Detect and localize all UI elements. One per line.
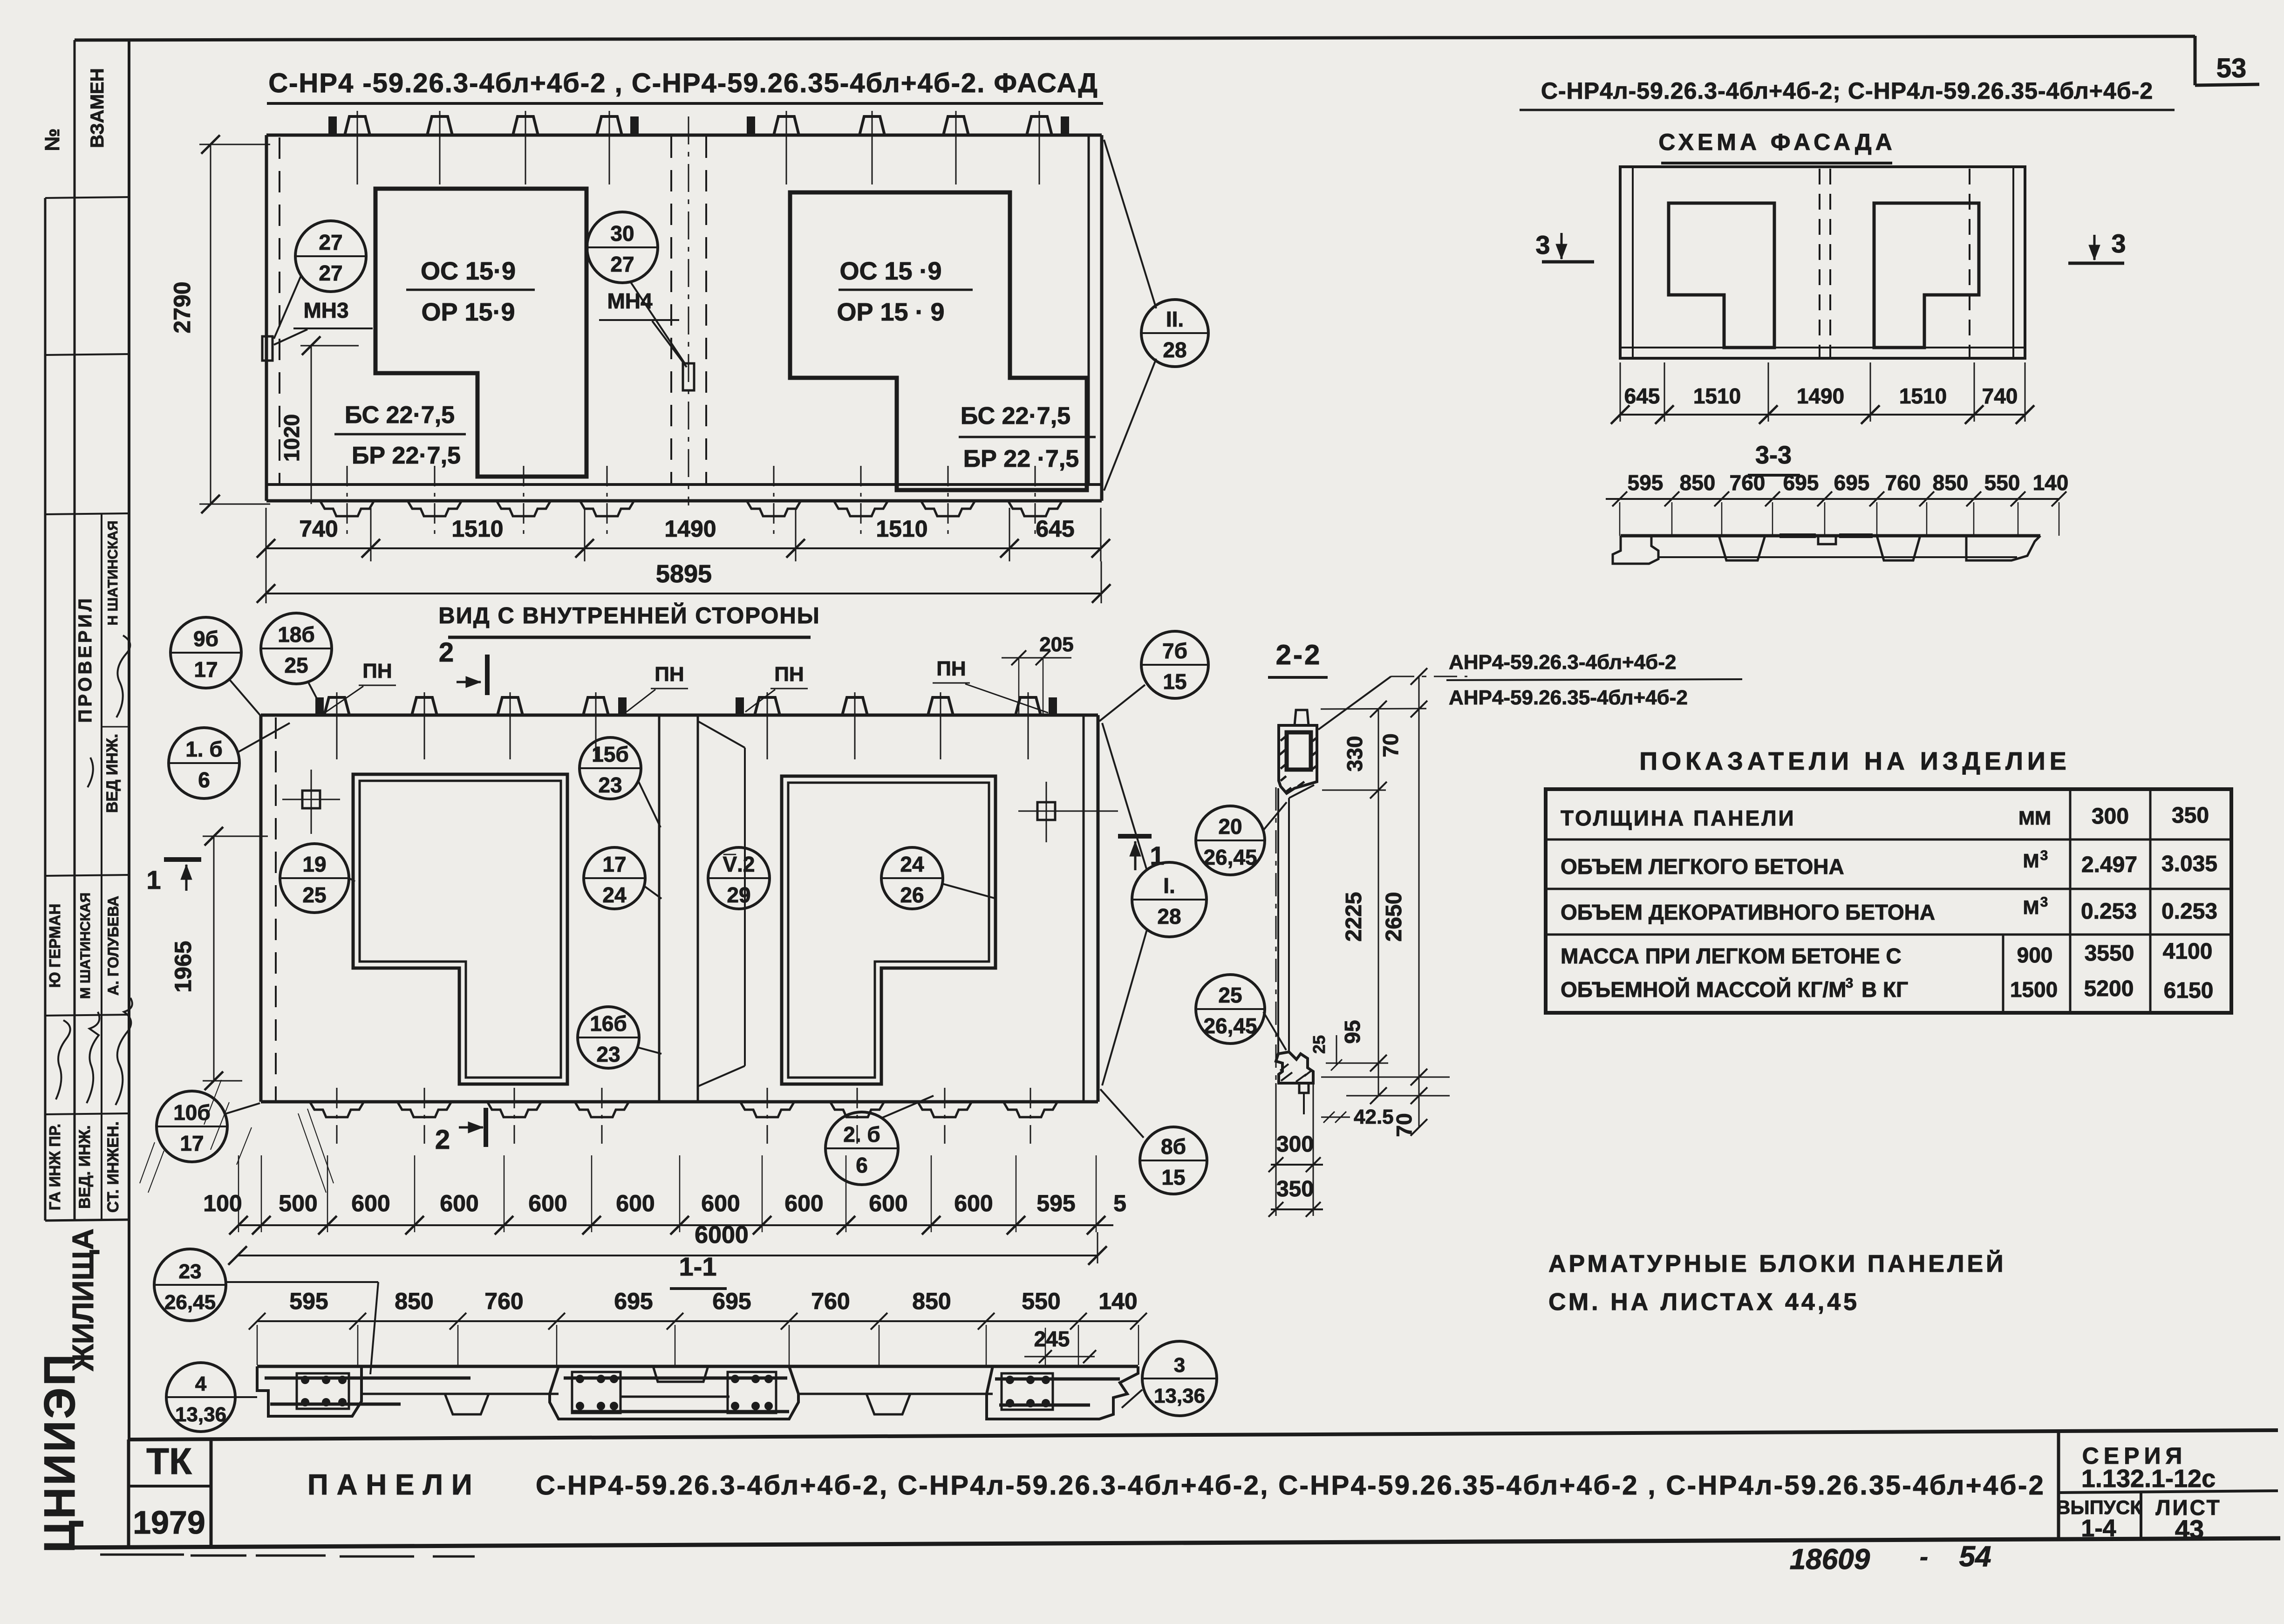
svg-text:№: № <box>41 128 64 151</box>
leader ANR4 to section <box>1318 676 1391 730</box>
svg-text:V̅.2: V̅.2 <box>723 852 755 876</box>
3-3 dim row <box>1606 498 2059 500</box>
svg-text:6: 6 <box>198 768 210 792</box>
svg-text:350: 350 <box>2172 803 2209 828</box>
svg-text:350: 350 <box>1276 1177 1314 1201</box>
svg-text:С-НР4-59.26.3-4бл+4б-2, С-НР4л: С-НР4-59.26.3-4бл+4б-2, С-НР4л-59.26.3-4… <box>536 1470 2045 1501</box>
svg-text:2-2: 2-2 <box>1276 639 1322 670</box>
svg-text:1-1: 1-1 <box>679 1252 717 1281</box>
inner dim 1965 <box>213 836 215 1081</box>
balloon 17/24 <box>584 847 645 909</box>
svg-text:СХЕМА ФАСАДА: СХЕМА ФАСАДА <box>1658 129 1895 155</box>
1-1 right block <box>987 1366 1138 1419</box>
section 2-2 narrow strip <box>1277 788 1279 1054</box>
svg-text:53: 53 <box>2216 53 2247 83</box>
svg-text:АНР4-59.26.35-4бл+4б-2: АНР4-59.26.35-4бл+4б-2 <box>1449 686 1688 709</box>
schema centre dash 2 <box>1829 169 1831 357</box>
svg-text:29: 29 <box>727 883 750 907</box>
balloon I/28 <box>1132 862 1207 937</box>
svg-text:ОС 15·9: ОС 15·9 <box>421 257 516 285</box>
balloon 16b/23 <box>578 1007 639 1068</box>
schema window left <box>1669 203 1774 348</box>
3-3 profile <box>1621 534 2040 538</box>
svg-text:1-4: 1-4 <box>2081 1515 2116 1542</box>
sheet top frame line <box>75 36 2195 40</box>
svg-text:СТ. ИНЖЕН.: СТ. ИНЖЕН. <box>104 1121 122 1213</box>
svg-text:МН3: МН3 <box>303 298 348 322</box>
svg-text:43: 43 <box>2175 1515 2204 1544</box>
facade bottom tooth at 1124 <box>497 501 551 516</box>
svg-text:2225: 2225 <box>1342 892 1366 942</box>
balloon 30/27 <box>587 212 658 283</box>
svg-text:3: 3 <box>1535 230 1550 259</box>
facade lifting loop at 1362 <box>631 117 638 135</box>
joint bracket <box>698 721 745 748</box>
svg-text:1510: 1510 <box>451 516 503 542</box>
svg-text:695: 695 <box>1783 471 1819 495</box>
facade total dim 5895 <box>266 593 1101 594</box>
svg-text:ПН: ПН <box>655 663 684 686</box>
balloon 24/26 <box>881 847 943 909</box>
svg-text:850: 850 <box>1933 471 1969 495</box>
svg-text:245: 245 <box>1034 1327 1070 1351</box>
svg-text:900: 900 <box>2017 943 2053 967</box>
svg-text:25: 25 <box>1309 1035 1329 1054</box>
svg-text:23: 23 <box>179 1260 202 1283</box>
inner top embed PN at 2019 <box>928 697 953 715</box>
facade top embed PN at 1308 <box>597 116 622 135</box>
svg-text:БР 22·7,5: БР 22·7,5 <box>352 442 461 469</box>
svg-text:МН4: МН4 <box>607 289 653 313</box>
svg-text:0.253: 0.253 <box>2161 899 2217 924</box>
svg-text:330: 330 <box>1343 736 1367 772</box>
svg-text:БР 22 ·7,5: БР 22 ·7,5 <box>963 445 1079 472</box>
left stamp column verticals <box>74 40 76 1221</box>
svg-text:0.253: 0.253 <box>2081 899 2137 924</box>
1-1 recess line a <box>361 1393 559 1395</box>
svg-text:3-3: 3-3 <box>1755 441 1792 469</box>
inner bottom tooth at 2212 <box>1003 1102 1057 1117</box>
inner bottom tooth at 1840 <box>830 1102 884 1117</box>
svg-text:595: 595 <box>1628 471 1664 495</box>
inner bottom tooth at 2028 <box>918 1102 972 1117</box>
facade window left (L-shape) <box>375 189 586 477</box>
svg-text:695: 695 <box>712 1288 751 1314</box>
svg-text:3.035: 3.035 <box>2161 852 2217 876</box>
section 2-2 bottom block <box>1276 1052 1313 1083</box>
svg-text:300: 300 <box>2092 804 2129 829</box>
inner left dashed axis <box>275 717 277 1100</box>
facade top embed PN at 1872 <box>859 116 885 135</box>
inner top embed PN at 1647 <box>755 697 780 715</box>
1-1 recess line b <box>798 1393 993 1395</box>
svg-text:2: 2 <box>435 1125 450 1155</box>
3-3 left end block <box>1613 536 1658 564</box>
1-1 dim row <box>257 1320 1139 1322</box>
svg-text:М: М <box>2023 896 2039 918</box>
1-1 mid cage 1 <box>572 1372 620 1413</box>
svg-text:7б: 7б <box>1162 639 1187 663</box>
facade bottom tooth at 745 <box>320 501 374 516</box>
svg-text:1500: 1500 <box>2010 977 2058 1002</box>
inner lifting loop at 686 <box>316 698 323 715</box>
svg-text:Ю ГЕРМАН: Ю ГЕРМАН <box>46 904 63 988</box>
section 2-2 dims <box>1321 709 1426 709</box>
1-1 right cage <box>1002 1373 1053 1410</box>
svg-text:ОБЪЕМНОЙ МАССОЙ КГ/М: ОБЪЕМНОЙ МАССОЙ КГ/М <box>1561 977 1847 1002</box>
svg-text:205: 205 <box>1039 633 1073 656</box>
facade top embed PN at 1688 <box>774 116 799 135</box>
svg-text:1965: 1965 <box>170 941 196 992</box>
facade bottom tooth at 2222 <box>1008 501 1062 516</box>
svg-text:ГА ИНЖ ПР.: ГА ИНЖ ПР. <box>46 1124 63 1210</box>
svg-text:550: 550 <box>1984 471 2020 495</box>
svg-text:95: 95 <box>1340 1020 1364 1044</box>
balloon 3/13,36 <box>1142 1341 1217 1416</box>
leader II/28 lower <box>1104 359 1156 491</box>
svg-text:140: 140 <box>2033 471 2069 495</box>
inner lifting loop at 1336 <box>619 698 626 715</box>
svg-text:26: 26 <box>900 883 924 907</box>
svg-text:С-НР4 -59.26.3-4бл+4б-2 , С-НР: С-НР4 -59.26.3-4бл+4б-2 , С-НР4-59.26.35… <box>268 68 1098 98</box>
schema window right <box>1874 203 1979 348</box>
svg-text:МАССА ПРИ ЛЕГКОМ БЕТОНЕ С: МАССА ПРИ ЛЕГКОМ БЕТОНЕ С <box>1561 944 1902 968</box>
svg-text:ЖИЛИЩА: ЖИЛИЩА <box>66 1228 100 1372</box>
svg-text:2.497: 2.497 <box>2081 853 2137 877</box>
facade top embed PN at 1128 <box>513 116 538 135</box>
svg-text:26,45: 26,45 <box>164 1291 216 1314</box>
1-1 recess tooth b <box>866 1394 910 1414</box>
svg-text:6: 6 <box>856 1153 868 1177</box>
table frame <box>1546 789 2231 1013</box>
svg-text:ВЗАМЕН: ВЗАМЕН <box>87 68 108 148</box>
inner window right double outline <box>782 776 995 1084</box>
svg-text:ПН: ПН <box>936 657 966 680</box>
facade bottom tooth at 933 <box>408 501 462 516</box>
schema outer panel <box>1620 167 2025 358</box>
svg-text:30: 30 <box>610 221 634 246</box>
inner top embed PN at 911 <box>412 697 437 715</box>
svg-text:760: 760 <box>1730 471 1766 495</box>
svg-text:70: 70 <box>1378 733 1403 757</box>
signature scribbles <box>56 1020 70 1099</box>
svg-text:5: 5 <box>1113 1190 1126 1216</box>
balloon 4/13,36 <box>166 1363 235 1432</box>
svg-text:18б: 18б <box>278 622 315 647</box>
svg-text:23: 23 <box>598 773 622 797</box>
svg-text:4100: 4100 <box>2163 939 2213 964</box>
stamp row dividers <box>45 197 129 198</box>
svg-text:8б: 8б <box>1161 1134 1186 1159</box>
balloon 1b/6 <box>169 728 239 798</box>
svg-text:17: 17 <box>180 1131 204 1155</box>
svg-text:20: 20 <box>1218 814 1242 839</box>
inner top embed PN at 1835 <box>842 697 867 715</box>
svg-text:19: 19 <box>302 852 326 876</box>
scan scratches <box>204 1080 221 1125</box>
marker MN3 <box>262 336 273 361</box>
inner bottom tooth at 1292 <box>575 1102 629 1117</box>
svg-text:600: 600 <box>616 1190 655 1216</box>
svg-text:С-НР4л-59.26.3-4бл+4б-2; С-НР4: С-НР4л-59.26.3-4бл+4б-2; С-НР4л-59.26.35… <box>1541 78 2153 104</box>
svg-text:595: 595 <box>1036 1190 1075 1216</box>
svg-text:6000: 6000 <box>695 1221 749 1249</box>
facade lifting loop at 1612 <box>748 117 754 135</box>
balloon 7b/15 <box>1141 631 1208 698</box>
facade top embed PN at 2052 <box>943 116 968 135</box>
svg-text:АРМАТУРНЫЕ БЛОКИ ПАНЕЛЕЙ: АРМАТУРНЫЕ БЛОКИ ПАНЕЛЕЙ <box>1548 1250 2006 1277</box>
inner bottom dim row <box>239 1224 1113 1226</box>
facade lifting loop at 714 <box>329 117 336 135</box>
svg-text:17: 17 <box>194 657 218 682</box>
svg-text:760: 760 <box>811 1288 850 1314</box>
facade bottom dim row <box>266 547 1101 549</box>
svg-text:760: 760 <box>484 1288 523 1314</box>
marker MN4 <box>683 363 694 390</box>
inner lifting loop at 2260 <box>1050 698 1056 715</box>
svg-text:2: 2 <box>439 637 454 668</box>
balloon 19/25 <box>280 844 349 913</box>
svg-text:18609: 18609 <box>1790 1543 1870 1576</box>
svg-text:1: 1 <box>146 865 161 894</box>
facade centre dashed axes <box>670 136 672 484</box>
1-1 left rebar cage <box>297 1373 349 1409</box>
svg-text:3550: 3550 <box>2085 941 2134 966</box>
inner top embed PN at 1279 <box>583 697 608 715</box>
facade bottom tooth at 1303 <box>580 501 634 516</box>
svg-text:1: 1 <box>1150 841 1164 870</box>
inner top embed PN at 2207 <box>1016 697 1041 715</box>
svg-text:695: 695 <box>1834 471 1870 495</box>
svg-text:100: 100 <box>203 1190 242 1216</box>
svg-text:Н ШАТИНСКАЯ: Н ШАТИНСКАЯ <box>105 520 121 625</box>
schema right dash axis <box>1969 169 1970 357</box>
svg-text:ММ: ММ <box>2018 807 2051 829</box>
svg-text:600: 600 <box>784 1190 823 1216</box>
svg-text:850: 850 <box>395 1288 433 1314</box>
svg-text:600: 600 <box>440 1190 478 1216</box>
svg-text:1979: 1979 <box>133 1504 205 1541</box>
balloon 27/27 <box>295 221 366 292</box>
inner lifting loop at 1588 <box>736 698 743 715</box>
inner bottom tooth at 1647 <box>740 1102 794 1117</box>
facade top embed PN at 767 <box>345 116 370 135</box>
svg-text:13,36: 13,36 <box>175 1403 226 1426</box>
svg-text:17: 17 <box>602 852 626 876</box>
svg-text:ОР 15·9: ОР 15·9 <box>421 298 515 326</box>
3-3 tooth 2 <box>1877 536 1920 560</box>
svg-text:15б: 15б <box>592 742 629 766</box>
inner bottom tooth at 911 <box>397 1102 451 1117</box>
svg-text:27: 27 <box>319 261 342 285</box>
balloon V2/29 <box>708 847 770 909</box>
svg-text:3: 3 <box>2040 848 2048 863</box>
svg-text:1490: 1490 <box>1797 384 1844 408</box>
svg-text:600: 600 <box>528 1190 567 1216</box>
svg-text:28: 28 <box>1157 904 1181 928</box>
leader 27/27 to MN3 <box>274 275 301 339</box>
balloon 18b/25 <box>261 613 332 684</box>
svg-text:24: 24 <box>900 852 924 876</box>
leader 30/27 to MN4 <box>630 281 686 365</box>
svg-text:600: 600 <box>954 1190 993 1216</box>
svg-text:600: 600 <box>351 1190 390 1216</box>
svg-text:27: 27 <box>319 230 342 254</box>
facade dim 1020 <box>311 346 312 504</box>
section 2-2 top bump <box>1295 710 1309 725</box>
svg-text:26,45: 26,45 <box>1203 845 1257 869</box>
balloon II/28 <box>1141 300 1208 367</box>
svg-text:26,45: 26,45 <box>1203 1014 1257 1038</box>
schema dim row <box>1620 414 2025 416</box>
svg-text:БС 22·7,5: БС 22·7,5 <box>961 403 1070 430</box>
svg-text:3: 3 <box>2111 229 2126 258</box>
1-1 profile <box>257 1365 1138 1368</box>
svg-text:15: 15 <box>1163 669 1186 694</box>
svg-text:М: М <box>2023 850 2039 872</box>
svg-text:850: 850 <box>1680 471 1716 495</box>
svg-text:2. б: 2. б <box>843 1122 880 1146</box>
svg-text:13,36: 13,36 <box>1154 1385 1205 1407</box>
balloon 23/26,45 <box>154 1249 226 1321</box>
svg-text:ПН: ПН <box>774 663 804 686</box>
page number corner mark <box>2194 36 2197 85</box>
svg-text:1020: 1020 <box>280 414 304 462</box>
svg-text:ВЕД ИНЖ.: ВЕД ИНЖ. <box>103 734 121 813</box>
svg-text:ПН: ПН <box>362 660 392 682</box>
inner panel outline <box>261 714 1098 717</box>
svg-text:3: 3 <box>2040 894 2048 910</box>
svg-text:СМ. НА ЛИСТАХ 44,45: СМ. НА ЛИСТАХ 44,45 <box>1548 1289 1860 1316</box>
1-1 middle block <box>550 1366 798 1419</box>
svg-text:ОР 15 · 9: ОР 15 · 9 <box>837 298 944 326</box>
svg-text:ТОЛЩИНА ПАНЕЛИ: ТОЛЩИНА ПАНЕЛИ <box>1561 806 1796 830</box>
svg-text:695: 695 <box>614 1288 653 1314</box>
3-3 tooth 1 <box>1719 536 1765 560</box>
svg-text:500: 500 <box>279 1190 317 1216</box>
svg-text:25: 25 <box>284 653 308 677</box>
svg-text:5200: 5200 <box>2084 976 2134 1001</box>
inner top embed PN at 723 <box>324 697 349 715</box>
svg-text:БС 22·7,5: БС 22·7,5 <box>345 402 455 429</box>
facade panel outline <box>266 134 1102 137</box>
svg-text:6150: 6150 <box>2164 978 2214 1003</box>
svg-text:600: 600 <box>869 1190 907 1216</box>
svg-text:1510: 1510 <box>876 516 927 542</box>
svg-text:23: 23 <box>596 1042 620 1066</box>
right anchor square <box>1037 802 1055 820</box>
svg-text:1.132.1-12с: 1.132.1-12с <box>2081 1465 2216 1493</box>
svg-text:ПАНЕЛИ: ПАНЕЛИ <box>307 1469 481 1501</box>
svg-text:24: 24 <box>602 883 627 907</box>
svg-text:15: 15 <box>1161 1165 1185 1189</box>
svg-text:В КГ: В КГ <box>1861 977 1908 1002</box>
svg-text:595: 595 <box>289 1288 328 1314</box>
svg-text:645: 645 <box>1036 516 1074 542</box>
facade dim 2790 <box>210 144 211 504</box>
facade title underline <box>267 102 1103 105</box>
svg-text:М ШАТИНСКАЯ: М ШАТИНСКАЯ <box>78 893 93 999</box>
svg-text:645: 645 <box>1624 384 1660 408</box>
svg-text:1510: 1510 <box>1693 384 1741 408</box>
inner joint lines <box>658 715 661 1102</box>
facade bottom tooth at 1661 <box>747 501 801 516</box>
svg-text:16б: 16б <box>590 1011 627 1036</box>
svg-text:3: 3 <box>1174 1354 1185 1377</box>
inner total dim 6000 <box>238 1255 1098 1256</box>
balloon 9b/17 <box>170 617 241 688</box>
svg-text:ПОКАЗАТЕЛИ НА ИЗДЕЛИЕ: ПОКАЗАТЕЛИ НА ИЗДЕЛИЕ <box>1639 747 2070 775</box>
svg-text:25: 25 <box>1218 983 1242 1007</box>
svg-text:70: 70 <box>1392 1113 1416 1137</box>
svg-text:1510: 1510 <box>1899 384 1947 408</box>
svg-text:300: 300 <box>1276 1132 1314 1157</box>
svg-text:ПРОВЕРИЛ: ПРОВЕРИЛ <box>75 595 95 723</box>
svg-text:ОБЪЕМ ДЕКОРАТИВНОГО БЕТОНА: ОБЪЕМ ДЕКОРАТИВНОГО БЕТОНА <box>1561 900 1935 924</box>
svg-text:1. б: 1. б <box>185 737 223 761</box>
svg-text:25: 25 <box>302 883 326 907</box>
svg-text:4: 4 <box>195 1372 207 1395</box>
svg-text:140: 140 <box>1098 1288 1137 1314</box>
inner window left double outline <box>353 774 567 1084</box>
svg-text:2650: 2650 <box>1382 892 1406 942</box>
title block frame <box>129 1430 2278 1440</box>
svg-text:10б: 10б <box>173 1100 211 1125</box>
facade bottom tooth at 2035 <box>921 501 975 516</box>
svg-text:ВЕД. ИНЖ.: ВЕД. ИНЖ. <box>76 1125 94 1209</box>
1-1 top notch <box>653 1366 708 1382</box>
scan noise dashes under block <box>100 1555 475 1556</box>
facade top embed PN at 944 <box>427 116 452 135</box>
facade lifting loop at 2286 <box>1062 117 1068 135</box>
svg-text:740: 740 <box>299 516 338 542</box>
svg-text:А. ГОЛУБЕВА: А. ГОЛУБЕВА <box>105 896 122 996</box>
svg-text:АНР4-59.26.3-4бл+4б-2: АНР4-59.26.3-4бл+4б-2 <box>1449 651 1676 674</box>
svg-text:1490: 1490 <box>664 516 716 542</box>
3-3 centre notch <box>1818 537 1836 544</box>
1-1 recess tooth a <box>445 1394 489 1414</box>
svg-text:-: - <box>1920 1543 1928 1571</box>
svg-text:ОС 15 ·9: ОС 15 ·9 <box>839 257 941 285</box>
svg-text:5895: 5895 <box>656 560 712 588</box>
balloon 8b/15 <box>1140 1127 1207 1194</box>
balloon 15b/23 <box>580 737 641 799</box>
facade window right <box>790 192 1087 490</box>
svg-text:550: 550 <box>1022 1288 1060 1314</box>
svg-text:600: 600 <box>701 1190 740 1216</box>
inner bottom tooth at 723 <box>310 1102 364 1117</box>
svg-text:ВИД С ВНУТРЕННЕЙ СТОРОНЫ: ВИД С ВНУТРЕННЕЙ СТОРОНЫ <box>438 603 820 628</box>
section 2-2 top block <box>1279 725 1317 793</box>
svg-text:28: 28 <box>1163 338 1186 362</box>
section 2-2 rebar box <box>1287 732 1311 770</box>
svg-text:850: 850 <box>912 1288 951 1314</box>
leader II/28 upper <box>1104 140 1156 308</box>
svg-text:II.: II. <box>1166 307 1184 331</box>
balloon 10b/17 <box>157 1091 227 1162</box>
svg-text:I.: I. <box>1163 873 1175 898</box>
svg-text:ОБЪЕМ ЛЕГКОГО БЕТОНА: ОБЪЕМ ЛЕГКОГО БЕТОНА <box>1561 854 1844 879</box>
svg-text:3: 3 <box>1846 976 1854 991</box>
section 2-2 bottom bump <box>1299 1083 1309 1093</box>
left anchor square <box>302 791 320 808</box>
inner top embed PN at 1095 <box>498 697 523 715</box>
svg-text:2790: 2790 <box>169 281 195 333</box>
3-3 right end block <box>1966 536 2040 560</box>
schema centre dash 1 <box>1819 169 1820 357</box>
svg-text:ТК: ТК <box>146 1440 192 1482</box>
facade left axis dashed <box>279 137 280 484</box>
